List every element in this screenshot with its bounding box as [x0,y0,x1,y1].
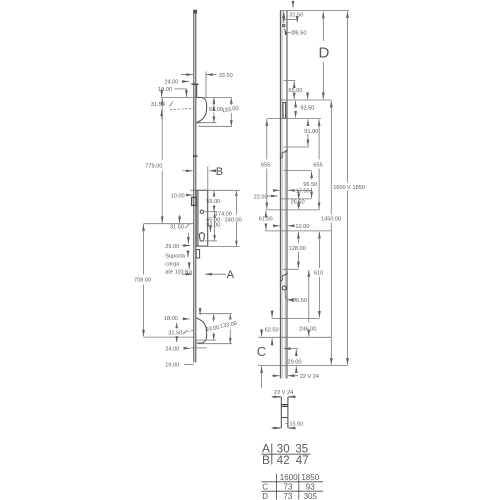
svg-text:carga: carga [165,262,180,268]
hole top [283,24,285,26]
svg-text:1450.00: 1450.00 [321,216,341,222]
bottom latch extension line [199,313,232,315]
dim 19.00 top leader [158,87,186,97]
top latch extension line [161,97,232,99]
hole line y170.6 [284,170,312,172]
dim C outside arrows [257,329,266,388]
detail section body [281,397,288,428]
notch cutout in strip [283,103,286,119]
svg-text:22 V 24: 22 V 24 [300,374,319,380]
dim 92.50 [296,101,315,118]
left strip faceplate [193,10,197,363]
svg-text:655: 655 [261,163,270,169]
svg-text:até 110 Kg: até 110 Kg [165,270,192,276]
table AB divider horizontal [262,453,311,455]
svg-text:C: C [262,483,268,492]
svg-text:31.50: 31.50 [170,224,184,230]
svg-text:655: 655 [313,163,322,169]
line y337.3 [258,336,331,338]
svg-text:246.00: 246.00 [299,326,316,332]
table CD line 1 [262,481,324,483]
text Suporta carga ate 110 Kg [165,254,192,276]
dim 133.00 top [198,98,239,127]
svg-text:92.00: 92.00 [206,223,220,229]
svg-text:C: C [257,344,266,359]
label 15.50 [285,422,303,428]
svg-text:779.00: 779.00 [145,164,162,170]
callout A [182,269,235,281]
dim 240.00 [196,190,242,246]
hole line 80.5 [284,80,296,82]
svg-text:133.00: 133.00 [221,106,239,115]
detail width arrows top [272,396,295,398]
dim 93.00 top [196,98,223,123]
svg-text:73: 73 [283,492,292,500]
svg-text:47: 47 [296,455,309,467]
svg-text:42: 42 [277,455,290,467]
dim 18.00 bottom [164,308,200,323]
spindle square hub [192,197,197,205]
svg-text:B: B [262,453,270,467]
svg-text:96.50: 96.50 [303,182,317,188]
svg-text:29.00: 29.00 [165,244,179,250]
dim 55.00 [206,190,220,211]
dim 22 V 24 strip width [272,374,319,380]
svg-text:Ø6.50: Ø6.50 [292,298,307,304]
top arrow onto edge [292,1,294,8]
svg-text:B: B [216,166,223,178]
svg-text:29.00: 29.00 [288,359,302,365]
svg-text:1600: 1600 [280,473,298,482]
screw tick on strip [193,155,198,157]
svg-text:10.00: 10.00 [295,224,309,230]
svg-text:D: D [319,45,330,62]
svg-text:A: A [227,269,235,281]
dim 61.00 [259,211,273,230]
dim 655 right [313,119,322,209]
svg-text:240.00: 240.00 [225,217,242,223]
dim 26.50 [291,199,305,209]
svg-text:708.00: 708.00 [134,278,151,284]
table CD vertical 2 [298,474,300,500]
labels 65.00 / 92.00 [206,217,220,232]
dim 24.00 top [164,80,198,86]
dim 1450.00 [321,101,341,365]
dim 91.00 [284,119,319,147]
dim 31.50 mid [170,215,189,244]
svg-text:26.50: 26.50 [291,199,305,205]
major line y230.9 [265,230,332,232]
dim 246.00 [299,270,316,336]
hole mid lower [282,286,286,290]
svg-text:Ø6.50: Ø6.50 [291,31,306,37]
svg-text:30: 30 [277,444,290,456]
dim 31.50 bottom [168,322,193,342]
load arrows [188,251,189,269]
svg-text:1850: 1850 [301,473,319,482]
svg-text:62.50: 62.50 [265,328,279,334]
cylinder screw hole [200,210,203,213]
svg-text:31.50: 31.50 [151,102,165,108]
top latch (hook bolt) [196,98,206,123]
dim 10.00 width arrows [276,224,310,230]
svg-text:92.50: 92.50 [300,106,314,112]
line y198.9 [281,198,312,200]
svg-text:55.00: 55.00 [206,199,220,205]
keyhole cylinder profile [199,233,204,241]
svg-text:133.00: 133.00 [220,321,238,330]
dim 779.00 [145,98,162,223]
svg-text:24.00: 24.00 [164,80,178,86]
table AB divider vertical [271,444,273,465]
lock point arrows y190.4 [274,189,311,191]
svg-text:128.00: 128.00 [289,246,306,252]
detail width arrows bottom [272,427,295,429]
dim 655 left [261,119,270,209]
table CD vertical 1 [275,474,277,500]
load hook on strip [196,250,199,259]
label dia 6.50 top [284,28,306,36]
major line y118.4 [267,117,321,119]
dim 133.00 bottom [198,314,237,344]
svg-text:31.50: 31.50 [168,331,182,337]
svg-text:61.00: 61.00 [259,216,273,222]
dim 31.50 top [151,89,194,120]
svg-text:19.00: 19.00 [158,87,172,93]
svg-text:73: 73 [283,483,292,492]
svg-text:17.50: 17.50 [296,188,310,194]
svg-text:305: 305 [304,492,318,500]
dim 128.00 [283,232,306,270]
dim 65.00 [288,81,307,99]
line y348.6 with arrow at strip [284,348,299,350]
dim 33.50 top [181,72,233,98]
svg-text:93: 93 [306,483,315,492]
callout B [182,166,223,191]
dim 174.00 [204,212,232,241]
break squiggle upper [280,150,288,159]
right strip channel profile [280,10,287,378]
line y318.5 [272,318,320,320]
dim 29.00 mid [165,244,190,250]
svg-text:65.00: 65.00 [288,88,302,94]
svg-text:24.00: 24.00 [165,346,179,352]
top edge extension line [280,9,349,11]
gearbox case [196,190,208,246]
dim 93.00 bottom [196,314,220,340]
dim 10.00 gearbox [171,190,197,199]
dim 610 [314,232,323,318]
svg-text:Suporta: Suporta [165,254,185,260]
dim 31.50 right top [284,11,304,23]
dim 29.00 [288,349,302,369]
svg-text:91.00: 91.00 [304,129,318,135]
dim 24.00 bottom [165,346,206,352]
dim 62.50 outside arrows [265,310,279,347]
svg-text:22.00: 22.00 [254,194,268,200]
svg-text:15.50: 15.50 [289,422,303,428]
major line y209.9 [266,209,320,211]
bottom latch (hook bolt) [196,318,206,343]
dim 708.00 [134,224,194,337]
svg-text:33.50: 33.50 [219,73,233,79]
svg-text:610: 610 [314,270,323,276]
dim 17.50 [296,188,310,199]
svg-text:93.00: 93.00 [205,325,220,333]
svg-text:35: 35 [295,444,308,456]
dim 96.50 [303,171,317,198]
svg-text:31.50: 31.50 [289,12,303,18]
bottom edge line y365.5 [258,365,348,367]
major line y100 [281,99,331,101]
table CD line 2 [262,490,324,492]
svg-text:1600 V 1850: 1600 V 1850 [333,185,365,191]
svg-text:10.00: 10.00 [171,193,185,199]
dim 19.00 bottom leader [165,363,193,369]
label dia 6.50 lower [285,291,307,304]
svg-text:19.00: 19.00 [165,363,179,369]
svg-text:18.00: 18.00 [164,316,178,322]
svg-text:D: D [262,492,268,500]
svg-text:22 V 24: 22 V 24 [274,390,293,396]
dim D [319,12,330,100]
dim 22.00 leader [254,194,278,200]
dim 1600 V 1850 [333,11,365,365]
break squiggle lower [280,273,288,282]
